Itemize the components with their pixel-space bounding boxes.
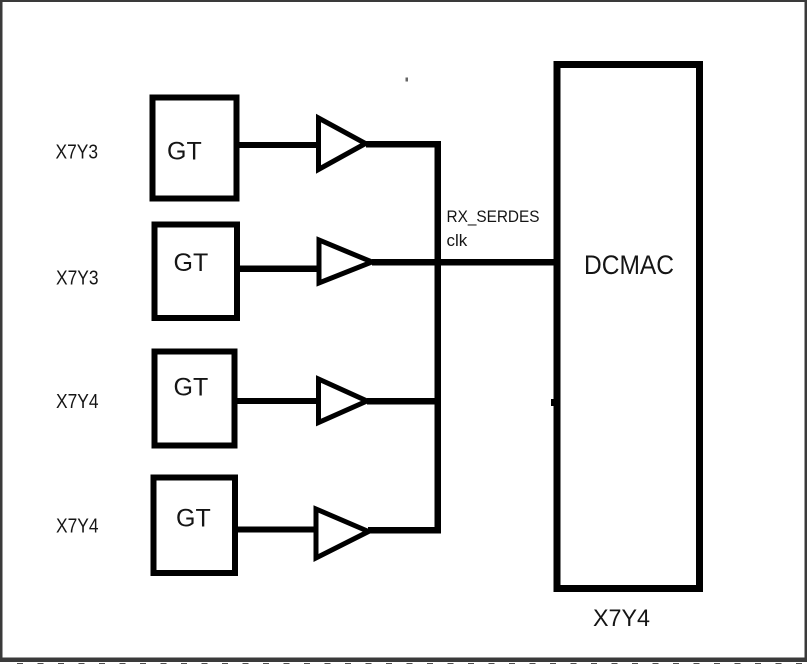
buffer B3 — [319, 379, 368, 423]
wire B1 output to bus — [366, 141, 441, 148]
wire G1 to buffer B1 — [237, 142, 318, 148]
svg-text:X7Y4: X7Y4 — [56, 391, 99, 413]
wire G4 to buffer B4 — [235, 527, 315, 533]
svg-text:X7Y3: X7Y3 — [56, 142, 99, 164]
wire B2 output to DCMAC (RX_SERDES clk net) — [372, 259, 557, 266]
buffer B2 — [319, 240, 372, 283]
svg-text:GT: GT — [176, 505, 211, 533]
net label RX_SERDES clk — [447, 207, 540, 250]
node label X7Y4 (under DCMAC) — [593, 605, 650, 632]
svg-text:RX_SERDES: RX_SERDES — [447, 207, 540, 226]
svg-text:GT: GT — [174, 374, 209, 402]
svg-text:X7Y4: X7Y4 — [56, 516, 99, 538]
wire B4 output to bus — [368, 527, 441, 534]
GT block G4 — [154, 478, 236, 574]
DCMAC block U1 — [557, 65, 700, 589]
node label X7Y3 (row 1) — [56, 142, 99, 164]
svg-text:clk: clk — [447, 231, 468, 250]
stub pin on DCMAC left edge — [551, 399, 554, 406]
svg-text:GT: GT — [174, 249, 209, 277]
svg-text:DCMAC: DCMAC — [584, 250, 674, 280]
GT block G1 — [153, 98, 237, 199]
node label X7Y4 (row 3) — [56, 391, 99, 413]
svg-text:X7Y3: X7Y3 — [56, 268, 99, 290]
node label X7Y4 (row 4) — [56, 516, 99, 538]
GT block G2 — [155, 225, 238, 319]
svg-text:X7Y4: X7Y4 — [593, 605, 650, 632]
GT block G3 — [155, 352, 235, 446]
wire B3 output to bus — [367, 398, 441, 405]
buffer B4 — [316, 509, 369, 558]
buffer B1 — [319, 118, 366, 170]
stray dot — [406, 78, 409, 82]
clock bus (vertical net) — [435, 141, 442, 534]
node label X7Y3 (row 2) — [56, 268, 99, 290]
wire G3 to buffer B3 — [235, 398, 318, 404]
wire G2 to buffer B2 — [237, 266, 318, 273]
svg-text:GT: GT — [167, 138, 202, 166]
